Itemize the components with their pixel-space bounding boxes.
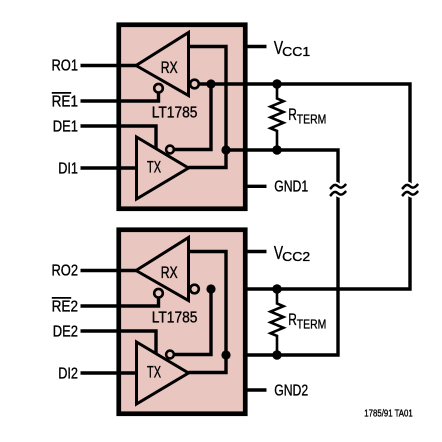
wire DE1 with stub bbox=[81, 126, 157, 149]
wire RE1 with stub bbox=[81, 91, 159, 101]
svg-text:LT1785: LT1785 bbox=[152, 105, 198, 122]
wire RX2 top input / TX2 apex output loop (via x=226) bbox=[189, 252, 227, 373]
svg-text:R: R bbox=[288, 105, 297, 124]
op-amp RX1 receiver triangle bbox=[136, 33, 189, 96]
svg-text:TX: TX bbox=[147, 363, 161, 381]
wire GND1 stub bbox=[243, 185, 267, 188]
bubble RE1 (inverting enable) bbox=[154, 84, 163, 93]
svg-text:GND1: GND1 bbox=[274, 179, 308, 196]
overline RE2 bbox=[52, 297, 71, 299]
IC U1 box (LT1785 #1) bbox=[119, 25, 246, 209]
junction chip2 B bbox=[221, 350, 230, 359]
wire TX1 bubble output to line A (via x=211) bbox=[174, 84, 211, 150]
wire GND2 stub bbox=[243, 388, 267, 391]
junction RTERM2 bottom bbox=[272, 350, 281, 359]
bubble RX2 inverting input bbox=[190, 285, 199, 294]
junction RTERM1 bottom bbox=[272, 145, 281, 154]
svg-text:RE1: RE1 bbox=[52, 93, 78, 110]
wire DE2 with stub bbox=[81, 331, 157, 354]
break symbol on line B bbox=[331, 185, 346, 195]
op-amp TX1 driver triangle bbox=[137, 137, 189, 199]
svg-text:TX: TX bbox=[147, 158, 161, 176]
wire VCC1 stub bbox=[243, 45, 267, 48]
svg-text:R: R bbox=[288, 310, 297, 329]
svg-text:DI2: DI2 bbox=[58, 365, 78, 382]
svg-text:1785/91 TA01: 1785/91 TA01 bbox=[364, 408, 413, 419]
svg-text:DE1: DE1 bbox=[53, 118, 78, 135]
resistor RTERM2 bbox=[271, 290, 284, 355]
svg-text:RO1: RO1 bbox=[52, 58, 79, 75]
junction RTERM2 top bbox=[272, 284, 281, 293]
bubble RX1 inverting input bbox=[190, 80, 199, 89]
wire RO2 bbox=[81, 269, 137, 272]
bubble TX1 inverting output bbox=[166, 146, 174, 154]
junction chip1 A bbox=[206, 79, 215, 88]
op-amp TX2 driver triangle bbox=[137, 342, 189, 404]
wire bus line A (chip1 to chip2 via right vertical) bbox=[199, 84, 410, 289]
svg-text:GND2: GND2 bbox=[274, 382, 308, 399]
svg-text:RO2: RO2 bbox=[52, 263, 79, 280]
wire bus line B (chip1 to chip2 via middle vertical) bbox=[226, 150, 338, 355]
svg-text:TERM: TERM bbox=[297, 111, 327, 126]
wire RE2 with stub bbox=[81, 296, 159, 306]
wire RX1 top input / TX1 apex output loop (via x=226) bbox=[189, 47, 227, 168]
svg-text:CC1: CC1 bbox=[282, 44, 310, 59]
junction chip2 A bbox=[206, 284, 215, 293]
bubble RE2 (inverting enable) bbox=[154, 289, 163, 298]
wire TX2 bubble output to line A (via x=211) bbox=[174, 289, 211, 355]
svg-text:TERM: TERM bbox=[297, 316, 327, 331]
svg-text:RE2: RE2 bbox=[52, 298, 78, 315]
wire RO1 bbox=[81, 64, 137, 67]
svg-text:RX: RX bbox=[161, 59, 178, 77]
bubble TX2 inverting output bbox=[166, 351, 174, 359]
svg-text:CC2: CC2 bbox=[282, 249, 310, 264]
op-amp RX2 receiver triangle bbox=[136, 238, 189, 301]
svg-text:DI1: DI1 bbox=[58, 160, 78, 177]
svg-text:DE2: DE2 bbox=[53, 323, 78, 340]
IC U2 box (LT1785 #2) bbox=[119, 230, 246, 414]
wire DI1 bbox=[81, 166, 137, 169]
junction RTERM1 top bbox=[272, 79, 281, 88]
svg-text:LT1785: LT1785 bbox=[152, 310, 198, 327]
wire DI2 bbox=[81, 371, 137, 374]
break symbol on line A bbox=[403, 185, 418, 195]
resistor RTERM1 bbox=[271, 85, 284, 150]
junction chip1 B bbox=[221, 145, 230, 154]
wire VCC2 stub bbox=[243, 250, 267, 253]
svg-text:RX: RX bbox=[161, 264, 178, 282]
overline RE1 bbox=[52, 92, 71, 94]
